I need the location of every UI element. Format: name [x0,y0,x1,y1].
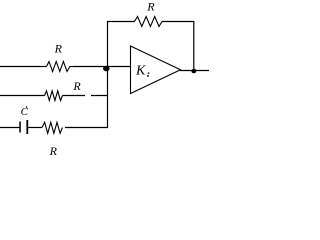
wire input 3 right segment [65,127,108,129]
wire feedback top left segment [107,21,135,23]
wire input 2 left segment [0,95,45,97]
wire feedback right vertical [193,22,195,71]
wire input 3 left segment [0,127,20,129]
resistor R2 feedback [135,0,163,27]
svg-text:R: R [49,144,58,157]
capacitor C1 [19,106,28,134]
resistor R1 [47,42,73,72]
wire vertical bus [107,22,109,128]
wire input 1 to op-amp input [72,66,130,68]
svg-text:R: R [72,79,81,93]
wire output [180,70,209,72]
op-amp U1 [131,46,181,94]
svg-text:C: C [21,106,29,118]
wire input 3 middle segment [28,127,42,129]
resistor R3 [45,79,82,101]
svg-text:R: R [54,42,63,56]
node A junction dot [103,66,110,71]
wire input 2 middle segment [63,95,86,97]
wire input 1 left segment [0,66,47,68]
wire input 2 right segment [91,95,108,97]
node B output junction dot [191,69,196,74]
resistor R4 [42,122,62,158]
wire feedback top right segment [162,21,194,23]
svg-text:R: R [146,0,155,14]
svg-text:K: K [135,64,146,79]
